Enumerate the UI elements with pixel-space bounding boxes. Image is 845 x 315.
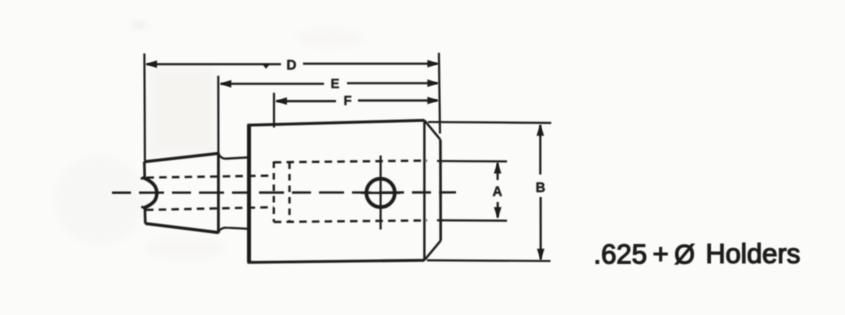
shank end notch <box>144 178 157 208</box>
dimension line D <box>147 63 282 65</box>
arrowhead A up <box>494 162 502 174</box>
scan gray wash under shank <box>145 236 225 260</box>
extension line left (D) <box>143 54 146 161</box>
hidden line: bore A bottom <box>274 220 427 222</box>
shank taper top edge <box>144 153 218 161</box>
dimension line F <box>276 100 336 102</box>
svg-text:B: B <box>536 180 546 195</box>
body bottom edge <box>247 260 424 262</box>
hole horizontal centerline <box>361 192 401 194</box>
arrowhead D right <box>427 60 439 68</box>
body right face edge <box>439 140 442 241</box>
arrowhead E right <box>427 79 439 87</box>
arrowhead F left <box>275 97 287 105</box>
extension line E <box>217 76 219 153</box>
hidden line: bore A top <box>274 161 427 163</box>
svg-text:D: D <box>287 58 297 73</box>
shank left face upper <box>143 162 146 177</box>
notch top hook <box>141 177 145 179</box>
shank left face lower <box>144 208 147 223</box>
svg-text:+: + <box>653 238 669 269</box>
centerline <box>112 191 456 194</box>
body top chamfer diagonal <box>424 120 440 139</box>
svg-text:Holders: Holders <box>706 238 801 269</box>
extension line B bottom <box>427 259 551 262</box>
body chamfer circle line <box>423 120 425 260</box>
extension line F <box>273 93 275 128</box>
shank taper bottom edge <box>145 224 218 233</box>
svg-text:A: A <box>493 184 503 199</box>
extension line A bottom <box>437 219 507 221</box>
scan gray wash under D line <box>148 66 216 156</box>
flange face edge <box>217 153 220 234</box>
extension line A top <box>437 160 507 162</box>
body left edge <box>247 125 251 263</box>
arrowhead D left <box>145 60 157 68</box>
arrowhead B up <box>537 124 545 136</box>
hole vertical centerline <box>380 156 382 230</box>
dimension line A <box>497 163 499 180</box>
hidden line: pilot bore bottom <box>146 207 274 210</box>
scan gray wash top-middle <box>296 29 364 47</box>
svg-text:F: F <box>344 93 352 108</box>
scan gray wash left of shank <box>55 155 145 245</box>
dimension line B <box>539 125 541 175</box>
svg-text:Ø: Ø <box>674 239 695 269</box>
dimension line E <box>221 83 324 85</box>
notch bottom hook <box>141 207 145 209</box>
arrowhead E left <box>220 80 232 88</box>
tick on D line <box>263 65 269 68</box>
extension line right (D E F) <box>439 53 440 134</box>
set screw hole circle <box>366 179 394 207</box>
arrowhead B down <box>537 249 545 261</box>
scan smudge top-left <box>132 22 146 28</box>
svg-text:.625: .625 <box>594 238 648 269</box>
neck bottom edge <box>219 228 249 232</box>
arrowhead A down <box>494 207 502 219</box>
body bottom chamfer diagonal <box>424 241 440 261</box>
neck top edge <box>219 155 249 159</box>
arrowhead F right <box>427 97 439 105</box>
body top edge <box>247 120 424 125</box>
hidden line: pilot bore top <box>147 176 274 178</box>
hidden line: bore bottom wall <box>273 162 275 223</box>
hidden line: bore step <box>288 163 290 222</box>
svg-text:E: E <box>331 76 340 91</box>
extension line B top <box>428 121 551 124</box>
